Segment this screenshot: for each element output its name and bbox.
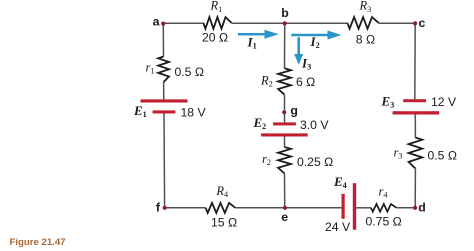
battery E4: [342, 183, 357, 230]
wire r1 to E1: [163, 82, 165, 100]
svg-text:8 Ω: 8 Ω: [356, 32, 375, 46]
battery E3: [393, 99, 440, 114]
svg-text:R1: R1: [210, 0, 223, 14]
svg-text:a: a: [153, 14, 160, 28]
wire E4 to r4: [356, 207, 371, 209]
svg-text:20 Ω: 20 Ω: [202, 30, 228, 44]
svg-text:R2: R2: [260, 73, 273, 88]
node d: [413, 206, 417, 210]
svg-text:I2: I2: [310, 34, 320, 50]
wire r2 to e: [284, 174, 286, 208]
svg-text:r2: r2: [262, 152, 271, 167]
battery E2: [261, 122, 308, 136]
battery E1: [141, 99, 188, 113]
svg-text:g: g: [290, 103, 298, 117]
svg-text:R3: R3: [359, 0, 372, 14]
wire a to R1: [163, 22, 203, 24]
resistor r4: [371, 204, 397, 212]
svg-text:0.25 Ω: 0.25 Ω: [297, 155, 333, 169]
resistor R2: [278, 68, 291, 94]
wire e to E4: [285, 207, 342, 209]
svg-text:E3: E3: [381, 93, 395, 109]
resistor r3: [409, 138, 423, 169]
svg-text:6 Ω: 6 Ω: [296, 75, 315, 89]
wire E2 to r2: [284, 137, 286, 148]
svg-text:R4: R4: [215, 184, 228, 199]
svg-text:0.5 Ω: 0.5 Ω: [428, 149, 457, 163]
node c: [413, 21, 417, 25]
resistor r1: [158, 57, 169, 83]
resistor R1: [203, 17, 231, 29]
svg-text:24 V: 24 V: [325, 220, 351, 234]
current arrow I2: [291, 31, 341, 40]
current arrow I3: [294, 37, 303, 64]
wire R2 to g and E2: [284, 95, 286, 123]
svg-text:r3: r3: [394, 146, 403, 161]
resistor r2: [278, 147, 291, 174]
wire r4 to d: [397, 207, 416, 209]
wire E3 to r3: [414, 115, 416, 138]
svg-text:E4: E4: [333, 174, 347, 190]
wire r3 to d: [414, 169, 416, 208]
wire c down to E3: [414, 23, 416, 99]
wire E1 to f: [163, 114, 166, 208]
svg-text:0.5 Ω: 0.5 Ω: [175, 65, 204, 79]
svg-text:f: f: [156, 200, 161, 214]
svg-text:18 V: 18 V: [181, 105, 207, 119]
current arrow I1: [238, 30, 279, 39]
svg-text:r1: r1: [146, 60, 155, 75]
svg-text:r4: r4: [379, 184, 388, 199]
svg-text:E2: E2: [253, 115, 267, 131]
svg-text:12 V: 12 V: [431, 95, 457, 109]
wire R4 to e: [236, 207, 285, 209]
svg-text:E1: E1: [133, 103, 147, 119]
resistor R3: [347, 17, 378, 29]
wire R1 to b: [232, 22, 285, 24]
svg-text:c: c: [419, 16, 426, 30]
svg-text:b: b: [281, 6, 289, 20]
wire b down to R2: [284, 23, 286, 68]
svg-text:Figure 21.47: Figure 21.47: [10, 237, 66, 248]
node f: [163, 206, 167, 210]
wire a down to r1: [162, 23, 164, 56]
wire R3 to c: [379, 22, 416, 24]
resistor R4: [206, 203, 236, 213]
svg-text:15 Ω: 15 Ω: [211, 215, 237, 229]
svg-text:d: d: [418, 200, 426, 214]
svg-text:0.75 Ω: 0.75 Ω: [366, 214, 402, 228]
node a: [161, 22, 165, 26]
node b: [283, 21, 287, 25]
svg-text:I3: I3: [301, 56, 311, 72]
wire f to R4: [165, 207, 206, 209]
svg-text:e: e: [281, 210, 288, 224]
svg-text:I1: I1: [247, 34, 257, 50]
svg-text:3.0 V: 3.0 V: [300, 118, 329, 132]
wire b to R3: [285, 22, 348, 24]
node e: [283, 206, 287, 210]
node g: [282, 110, 286, 114]
